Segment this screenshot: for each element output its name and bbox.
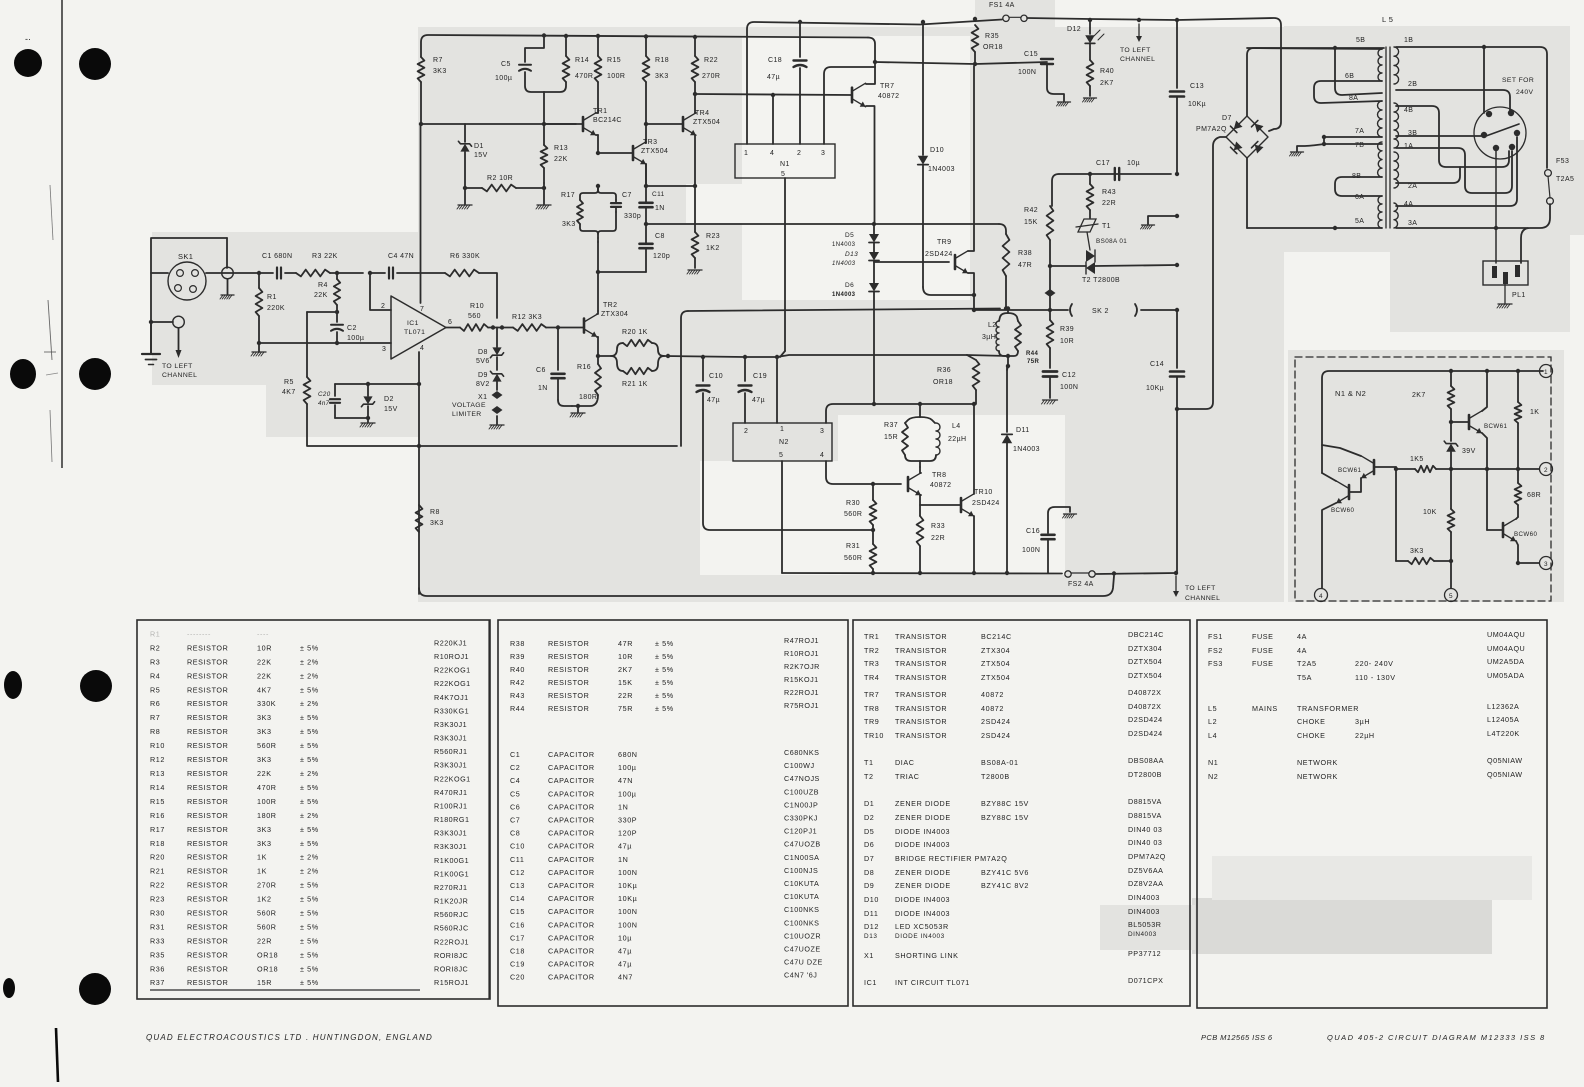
svg-text:DIN4003: DIN4003: [1128, 893, 1160, 902]
svg-text:22R: 22R: [931, 535, 945, 542]
resistor R5: [306, 312, 308, 377]
svg-text:PL1: PL1: [1512, 292, 1526, 299]
node input: [257, 271, 261, 275]
svg-text:CAPACITOR: CAPACITOR: [548, 868, 595, 877]
resistor R15: [596, 34, 600, 38]
svg-text:D13: D13: [864, 933, 878, 940]
svg-text:D2SD424: D2SD424: [1128, 715, 1163, 724]
svg-text:± 5%: ± 5%: [300, 964, 319, 973]
svg-text:RESISTOR: RESISTOR: [187, 699, 228, 708]
svg-text:5B: 5B: [1356, 37, 1365, 44]
svg-text:RESISTOR: RESISTOR: [187, 811, 228, 820]
svg-text:LIMITER: LIMITER: [452, 411, 482, 418]
svg-text:TO LEFT: TO LEFT: [162, 363, 193, 370]
resistor R40: [1087, 60, 1094, 86]
svg-text:6B: 6B: [1345, 73, 1354, 80]
transistor TR8 40872: [907, 477, 910, 491]
wire N2 pin4 to TR8 base: [826, 461, 901, 484]
svg-text:ZENER DIODE: ZENER DIODE: [895, 868, 951, 877]
svg-text:RESISTOR: RESISTOR: [187, 713, 228, 722]
resistor net 1K: [1517, 371, 1519, 402]
svg-text:R16: R16: [150, 811, 165, 820]
wire 2B to selector: [1396, 90, 1510, 112]
svg-text:TR1: TR1: [864, 632, 879, 641]
svg-text:3K3: 3K3: [257, 727, 272, 736]
svg-text:± 5%: ± 5%: [300, 727, 319, 736]
capacitor C6: [557, 328, 559, 371]
svg-text:DIN4003: DIN4003: [1128, 931, 1157, 938]
svg-text:R15: R15: [150, 797, 165, 806]
svg-text:CAPACITOR: CAPACITOR: [548, 776, 595, 785]
wire TR7 emitter down to diode chain: [866, 106, 875, 224]
svg-text:1A: 1A: [1404, 143, 1413, 150]
svg-text:R22: R22: [150, 881, 165, 890]
svg-text:R10ROJ1: R10ROJ1: [784, 649, 819, 658]
svg-text:3K3: 3K3: [257, 839, 272, 848]
svg-text:C1 680N: C1 680N: [262, 253, 292, 260]
wire C10 to R30/R31 mid: [703, 393, 873, 530]
svg-text:N2: N2: [779, 439, 789, 446]
svg-text:TR10: TR10: [864, 731, 884, 740]
resistor R6: [445, 270, 479, 277]
wire TR10 emitter: [973, 516, 975, 573]
svg-text:TRIAC: TRIAC: [895, 772, 920, 781]
svg-text:RESISTOR: RESISTOR: [187, 797, 228, 806]
svg-text:C10: C10: [510, 842, 525, 851]
wire C6/R16 bottom + ground: [558, 400, 572, 406]
capacitor C12: [1043, 370, 1057, 373]
svg-text:BC214C: BC214C: [593, 117, 622, 124]
wire SK2 line: [974, 309, 1068, 311]
svg-text:15K: 15K: [1024, 219, 1038, 226]
svg-text:4A: 4A: [1297, 632, 1307, 641]
resistor R8: [416, 505, 423, 532]
wire TR3 emitter: [645, 164, 647, 186]
svg-text:R2 10R: R2 10R: [487, 175, 513, 182]
svg-text:47R: 47R: [1018, 262, 1032, 269]
svg-text:C18: C18: [768, 57, 782, 64]
svg-text:± 2%: ± 2%: [300, 811, 319, 820]
ground X1: [496, 416, 498, 424]
svg-text:10Kµ: 10Kµ: [1188, 101, 1206, 108]
svg-text:2K7: 2K7: [1100, 80, 1114, 87]
svg-text:C14: C14: [510, 894, 525, 903]
svg-text:C6: C6: [536, 367, 546, 374]
svg-text:R37: R37: [150, 978, 165, 987]
svg-text:R36: R36: [937, 367, 951, 374]
svg-text:ZTX504: ZTX504: [641, 148, 668, 155]
svg-text:2K7: 2K7: [1412, 392, 1426, 399]
wire 1B top line: [1396, 47, 1547, 168]
svg-text:R100RJ1: R100RJ1: [434, 802, 467, 811]
svg-text:100µ: 100µ: [618, 763, 637, 772]
svg-text:2: 2: [797, 150, 801, 157]
svg-text:5V6: 5V6: [476, 358, 490, 365]
svg-text:TR9: TR9: [937, 239, 951, 246]
svg-text:± 5%: ± 5%: [300, 713, 319, 722]
svg-text:D2SD424: D2SD424: [1128, 729, 1163, 738]
svg-text:TR7: TR7: [880, 83, 894, 90]
wire TR8 emitter to R33: [920, 495, 921, 516]
svg-text:560: 560: [468, 313, 481, 320]
svg-text:R3K30J1: R3K30J1: [434, 829, 467, 838]
svg-text:± 5%: ± 5%: [300, 923, 319, 932]
svg-text:R16: R16: [577, 364, 591, 371]
fuse F53 vertical: [1545, 170, 1552, 177]
svg-text:DIODE IN4003: DIODE IN4003: [895, 827, 950, 836]
terminal 5: [1445, 589, 1458, 602]
svg-text:TRANSISTOR: TRANSISTOR: [895, 731, 947, 740]
svg-text:UM04AQU: UM04AQU: [1487, 644, 1525, 653]
svg-text:IC1: IC1: [864, 978, 877, 987]
resistor R42: [1047, 206, 1054, 240]
transistor TR3: [632, 146, 635, 160]
svg-text:TRANSISTOR: TRANSISTOR: [895, 659, 947, 668]
svg-text:CHOKE: CHOKE: [1297, 731, 1326, 740]
svg-text:F53: F53: [1556, 158, 1569, 165]
wire selector pin to 1B vert: [1483, 47, 1485, 113]
svg-text:C15: C15: [1024, 51, 1038, 58]
svg-text:C1N00SA: C1N00SA: [784, 853, 819, 862]
svg-text:4: 4: [1319, 593, 1323, 600]
wire op-amp V- rail: [418, 352, 420, 594]
svg-text:3K3: 3K3: [1410, 548, 1424, 555]
svg-text:TRANSISTOR: TRANSISTOR: [895, 632, 947, 641]
svg-text:RORI8JC: RORI8JC: [434, 964, 468, 973]
svg-text:4A: 4A: [1404, 201, 1413, 208]
networks N1 N2 detail dashed box: [1295, 357, 1551, 601]
svg-text:R75ROJ1: R75ROJ1: [784, 701, 819, 710]
wire L2 bottom node: [967, 355, 1008, 356]
svg-text:D13: D13: [845, 251, 858, 258]
svg-text:22K: 22K: [257, 657, 272, 666]
svg-text:110 - 130V: 110 - 130V: [1355, 673, 1396, 682]
svg-text:100N: 100N: [618, 907, 638, 916]
svg-text:D1: D1: [864, 799, 874, 808]
svg-text:C11: C11: [652, 191, 665, 198]
svg-text:D7: D7: [1222, 115, 1232, 122]
svg-text:C6: C6: [510, 802, 520, 811]
svg-text:1N4003: 1N4003: [832, 261, 856, 267]
svg-text:D8: D8: [864, 868, 874, 877]
svg-text:R560RJC: R560RJC: [434, 924, 469, 933]
svg-text:± 5%: ± 5%: [300, 825, 319, 834]
svg-text:22K: 22K: [257, 769, 272, 778]
svg-text:D7: D7: [864, 854, 874, 863]
svg-text:1N: 1N: [538, 385, 548, 392]
svg-text:R17: R17: [150, 825, 165, 834]
svg-text:± 2%: ± 2%: [300, 769, 319, 778]
svg-text:L4: L4: [1208, 731, 1217, 740]
svg-text:40872: 40872: [981, 690, 1004, 699]
svg-text:40872: 40872: [930, 482, 951, 489]
capacitor C14: [1176, 310, 1178, 368]
svg-text:1K: 1K: [257, 867, 267, 876]
svg-text:C12: C12: [1062, 372, 1076, 379]
wire TR8 collector: [920, 467, 921, 473]
svg-text:R20 1K: R20 1K: [622, 329, 648, 336]
svg-text:R44: R44: [1026, 351, 1038, 357]
svg-text:D12: D12: [1067, 26, 1081, 33]
transistor net BCW60 left: [1336, 481, 1349, 503]
wire input top loop: [151, 238, 227, 353]
svg-text:RESISTOR: RESISTOR: [187, 853, 228, 862]
svg-text:TR10: TR10: [974, 489, 993, 496]
wire R35 node right to C15: [975, 62, 1047, 64]
svg-text:CAPACITOR: CAPACITOR: [548, 881, 595, 890]
svg-text:3µH: 3µH: [1355, 717, 1370, 726]
svg-text:TR4: TR4: [864, 673, 879, 682]
svg-text:C120PJ1: C120PJ1: [784, 827, 817, 836]
svg-text:3K3: 3K3: [257, 825, 272, 834]
svg-text:D8: D8: [478, 349, 488, 356]
svg-text:R20: R20: [150, 853, 165, 862]
svg-text:ZTX504: ZTX504: [981, 659, 1010, 668]
scan gray background zones: [418, 27, 1284, 602]
svg-text:T5A: T5A: [1297, 673, 1312, 682]
net top line: [1322, 371, 1543, 473]
capacitor C8: [640, 243, 653, 246]
svg-text:2SD424: 2SD424: [925, 251, 953, 258]
svg-text:± 2%: ± 2%: [300, 699, 319, 708]
svg-text:QUAD ELECTROACOUSTICS LTD . HU: QUAD ELECTROACOUSTICS LTD . HUNTINGDON, …: [146, 1033, 433, 1042]
svg-text:R13: R13: [554, 145, 568, 152]
svg-text:4n7: 4n7: [318, 400, 330, 407]
wire TR9 emitter down: [968, 273, 974, 310]
resistor R39: [1049, 310, 1051, 320]
svg-text:BZY88C 15V: BZY88C 15V: [981, 799, 1029, 808]
svg-text:SHORTING LINK: SHORTING LINK: [895, 951, 959, 960]
svg-text:10Kµ: 10Kµ: [618, 894, 637, 903]
ground PL1: [1504, 284, 1506, 303]
svg-text:± 5%: ± 5%: [300, 783, 319, 792]
svg-text:2A: 2A: [1408, 183, 1417, 190]
svg-text:± 5%: ± 5%: [300, 644, 319, 653]
svg-text:ZTX504: ZTX504: [981, 673, 1010, 682]
svg-text:D6: D6: [845, 282, 854, 289]
left earth ground: [150, 322, 152, 353]
svg-text:BCW60: BCW60: [1514, 531, 1537, 538]
wire D5 chain top: [872, 222, 876, 226]
svg-text:--------: --------: [187, 630, 211, 639]
svg-text:RESISTOR: RESISTOR: [187, 671, 228, 680]
svg-text:100µ: 100µ: [618, 789, 637, 798]
wire C20/D2 bottom + ground: [335, 417, 368, 419]
arrow to left channel (input): [178, 328, 180, 352]
svg-text:CHANNEL: CHANNEL: [1185, 595, 1220, 602]
svg-text:CAPACITOR: CAPACITOR: [548, 816, 595, 825]
svg-text:1: 1: [780, 426, 784, 433]
svg-text:R40: R40: [510, 665, 525, 674]
svg-text:C8: C8: [655, 233, 665, 240]
wire BCW60r collector: [1516, 517, 1518, 519]
terminal 3: [1540, 557, 1553, 570]
svg-text:BCW61: BCW61: [1338, 467, 1361, 474]
svg-text:R23: R23: [706, 233, 720, 240]
svg-text:± 5%: ± 5%: [300, 755, 319, 764]
svg-text:D2: D2: [384, 396, 394, 403]
svg-text:100N: 100N: [618, 868, 638, 877]
wire SK1 lower pin: [151, 321, 173, 323]
svg-text:N2: N2: [1208, 772, 1218, 781]
svg-text:D11: D11: [864, 909, 878, 918]
svg-text:330p: 330p: [624, 213, 641, 220]
svg-text:2: 2: [381, 303, 385, 310]
svg-text:R44: R44: [510, 704, 525, 713]
network N1 box: [735, 144, 835, 178]
svg-text:R14: R14: [575, 57, 589, 64]
bridge rectifier D7: [1226, 116, 1268, 158]
svg-text:C47UOZE: C47UOZE: [784, 945, 821, 954]
svg-text:R39: R39: [1060, 326, 1074, 333]
svg-text:BC214C: BC214C: [981, 632, 1012, 641]
svg-text:D8815VA: D8815VA: [1128, 797, 1162, 806]
svg-text:4: 4: [420, 345, 424, 352]
wire R5 bottom feedback: [307, 404, 677, 446]
svg-text:± 5%: ± 5%: [300, 839, 319, 848]
wire C11/R23 node line to R38: [644, 222, 648, 226]
wire N1 pin4 up: [772, 95, 774, 144]
svg-text:D10: D10: [930, 147, 944, 154]
svg-text:± 2%: ± 2%: [300, 867, 319, 876]
svg-text:3K3: 3K3: [430, 520, 444, 527]
svg-text:1N4003: 1N4003: [832, 292, 856, 298]
capacitor C10: [702, 357, 704, 381]
wire F53 to PL1: [1521, 204, 1550, 263]
wire TR4 collector to R22: [695, 112, 696, 114]
svg-text:FS1: FS1: [1208, 632, 1223, 641]
transformer winding 6A-5A: [1378, 196, 1382, 228]
svg-text:3K3: 3K3: [433, 68, 447, 75]
svg-text:1N: 1N: [618, 855, 628, 864]
svg-text:3K3: 3K3: [562, 221, 576, 228]
svg-text:ZENER DIODE: ZENER DIODE: [895, 799, 951, 808]
wire TR9 collector up: [968, 66, 974, 251]
svg-text:R15ROJ1: R15ROJ1: [434, 978, 469, 987]
svg-text:RESISTOR: RESISTOR: [187, 881, 228, 890]
svg-text:22R: 22R: [618, 691, 633, 700]
svg-text:D11: D11: [1016, 427, 1030, 434]
resistor R23: [692, 232, 699, 258]
resistor R2: [482, 185, 516, 192]
svg-text:100µ: 100µ: [495, 75, 512, 82]
svg-text:R14: R14: [150, 783, 165, 792]
svg-text:10Kµ: 10Kµ: [1146, 385, 1164, 392]
resistor R17 / capacitor C7 parallel block: [580, 186, 598, 200]
svg-text:R8: R8: [150, 727, 160, 736]
wire 8B-6A link: [1335, 177, 1382, 196]
wire N2 pin5 down: [781, 461, 783, 573]
svg-text:BZY41C 8V2: BZY41C 8V2: [981, 881, 1029, 890]
svg-text:SET FOR: SET FOR: [1502, 77, 1534, 84]
svg-text:TO LEFT: TO LEFT: [1120, 47, 1151, 54]
svg-text:R7: R7: [150, 713, 160, 722]
svg-text:R31: R31: [846, 543, 860, 550]
wire TR2 collector: [597, 311, 598, 314]
svg-text:R30: R30: [150, 909, 165, 918]
wire C4 link: [337, 272, 363, 274]
svg-text:TR4: TR4: [695, 110, 709, 117]
wire 2A loop: [1396, 167, 1460, 183]
svg-text:± 2%: ± 2%: [300, 853, 319, 862]
parts table box 4 (fuses, magnetics, networks): [1197, 620, 1547, 1008]
svg-text:TRANSISTOR: TRANSISTOR: [895, 673, 947, 682]
svg-text:FS1 4A: FS1 4A: [989, 2, 1015, 9]
svg-text:R38: R38: [1018, 250, 1032, 257]
svg-text:BZY88C 15V: BZY88C 15V: [981, 813, 1029, 822]
svg-text:47µ: 47µ: [618, 947, 632, 956]
svg-text:± 5%: ± 5%: [655, 665, 674, 674]
capacitor C13: [1176, 20, 1178, 88]
svg-text:2B: 2B: [1408, 81, 1417, 88]
svg-text:DZ8V2AA: DZ8V2AA: [1128, 879, 1163, 888]
svg-text:8V2: 8V2: [476, 381, 490, 388]
svg-text:R3K30J1: R3K30J1: [434, 734, 467, 743]
capacitor C5 stub: [542, 33, 546, 37]
svg-text:DIODE IN4003: DIODE IN4003: [895, 933, 945, 940]
transformer L5 core: [1385, 47, 1387, 228]
transformer winding 5B-6B: [1378, 49, 1382, 81]
wire T2 right node: [1175, 263, 1179, 267]
transistor TR4: [682, 117, 685, 131]
svg-text:N1 & N2: N1 & N2: [1335, 389, 1366, 398]
net line terminal 2: [1436, 468, 1539, 470]
svg-text:-·: -·: [25, 34, 31, 44]
svg-text:10R: 10R: [257, 644, 272, 653]
svg-text:100N: 100N: [1060, 384, 1078, 391]
svg-text:DZTX304: DZTX304: [1128, 644, 1162, 653]
wire FS2 right to left-channel: [1096, 573, 1176, 574]
svg-text:ZENER DIODE: ZENER DIODE: [895, 881, 951, 890]
parts table box 2 (R38-R44 + capacitors): [498, 620, 848, 1006]
transistor TR7 40872: [851, 88, 854, 103]
svg-text:CAPACITOR: CAPACITOR: [548, 763, 595, 772]
svg-text:CHOKE: CHOKE: [1297, 717, 1326, 726]
svg-text:15R: 15R: [257, 978, 272, 987]
svg-text:VOLTAGE: VOLTAGE: [452, 402, 486, 409]
svg-text:L12405A: L12405A: [1487, 715, 1519, 724]
svg-text:1K: 1K: [1530, 409, 1539, 416]
wire D1 bar: [421, 123, 576, 125]
wire 7A/7B taps + ground: [1324, 137, 1382, 144]
svg-text:L4: L4: [952, 423, 961, 430]
svg-text:C8: C8: [510, 829, 520, 838]
svg-text:R30: R30: [846, 500, 860, 507]
wire BCW60r emitter to terminal 3: [1516, 541, 1518, 563]
capacitor C1: [259, 272, 273, 274]
resistor R33: [917, 516, 924, 546]
wire bottom left long: [419, 576, 1114, 596]
svg-text:DIODE IN4003: DIODE IN4003: [895, 840, 950, 849]
wire C17 line: [1059, 173, 1171, 175]
svg-text:FS2: FS2: [1208, 646, 1223, 655]
resistor R4: [334, 279, 340, 305]
svg-text:120p: 120p: [653, 253, 670, 260]
transformer winding 4B-3B-1A: [1394, 103, 1399, 148]
svg-text:C2: C2: [347, 325, 357, 332]
svg-text:R40: R40: [1100, 68, 1114, 75]
op-amp IC1 TL071: [391, 296, 446, 359]
svg-text:C19: C19: [510, 960, 525, 969]
resistor R18: [644, 34, 648, 38]
svg-text:C20: C20: [318, 391, 331, 398]
svg-text:R10ROJ1: R10ROJ1: [434, 652, 469, 661]
wire 3A loop: [1396, 227, 1528, 229]
resistor R31: [870, 544, 877, 569]
svg-text:± 5%: ± 5%: [300, 741, 319, 750]
wire N2 pin1 up: [776, 357, 778, 423]
wire R38 bottom: [1005, 276, 1007, 309]
